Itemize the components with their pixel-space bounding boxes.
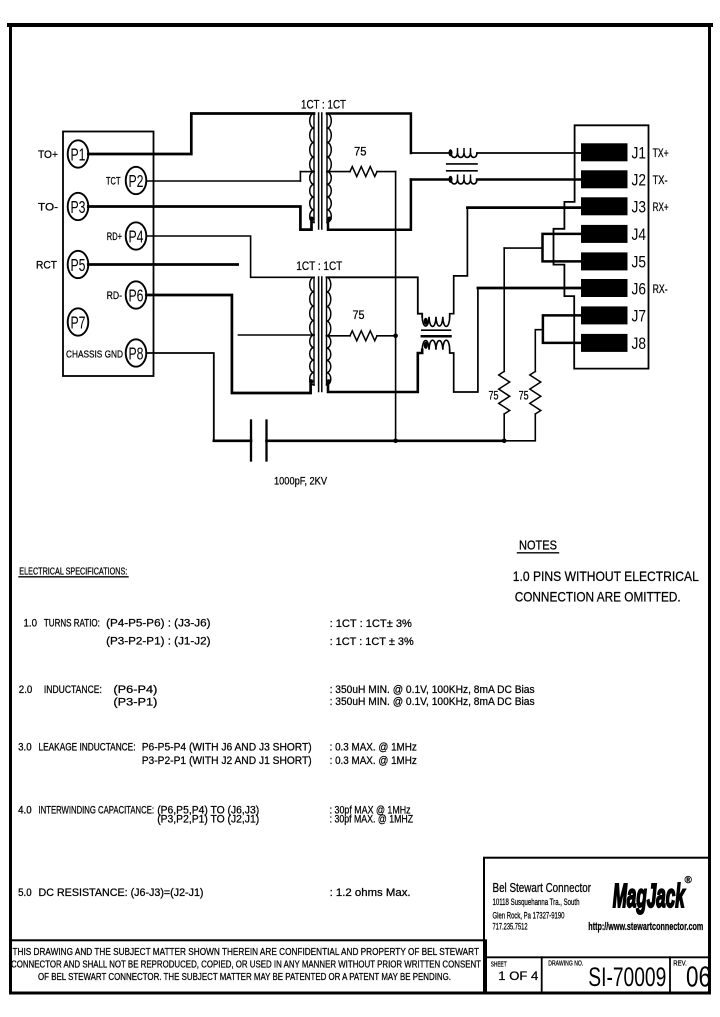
svg-text:: 30pf MAX. @ 1MHZ: : 30pf MAX. @ 1MHZ [330, 814, 414, 826]
svg-text:TO+: TO+ [38, 149, 58, 161]
svg-text:CONNECTION ARE OMITTED.: CONNECTION ARE OMITTED. [515, 589, 681, 605]
svg-text:J5: J5 [632, 253, 647, 272]
svg-text:CONNECTOR AND SHALL NOT BE REP: CONNECTOR AND SHALL NOT BE REPRODUCED, C… [11, 959, 481, 970]
svg-text:06: 06 [686, 962, 711, 994]
svg-text:RCT: RCT [36, 260, 57, 272]
svg-text:: 1.2 ohms Max.: : 1.2 ohms Max. [330, 887, 411, 899]
svg-text:SI-70009: SI-70009 [588, 962, 666, 992]
svg-text:TO-: TO- [38, 202, 58, 214]
svg-text:10118 Susquehanna Tra., South: 10118 Susquehanna Tra., South [493, 897, 580, 907]
svg-text:75: 75 [489, 389, 499, 403]
svg-text:1CT : 1CT: 1CT : 1CT [301, 98, 347, 112]
svg-text:1CT : 1CT: 1CT : 1CT [296, 259, 343, 273]
svg-text:OF BEL STEWART CONNECTOR. THE: OF BEL STEWART CONNECTOR. THE SUBJECT MA… [38, 972, 451, 983]
svg-text:RX+: RX+ [653, 200, 669, 214]
svg-text:(P6-P4): (P6-P4) [113, 684, 157, 696]
svg-text:RD-: RD- [107, 290, 123, 302]
svg-text:4.0: 4.0 [18, 804, 32, 816]
svg-text:1 OF 4: 1 OF 4 [498, 969, 538, 983]
svg-text:5.0: 5.0 [18, 887, 32, 899]
svg-text:(P3-P1): (P3-P1) [113, 697, 157, 709]
svg-text:P8: P8 [129, 343, 144, 363]
svg-text:2.0: 2.0 [19, 684, 33, 696]
svg-text:J4: J4 [632, 225, 647, 244]
svg-text:Bel Stewart Connector: Bel Stewart Connector [493, 880, 592, 895]
svg-text:P5: P5 [71, 255, 86, 275]
svg-text:INTERWINDING CAPACITANCE:: INTERWINDING CAPACITANCE: [39, 804, 155, 816]
svg-text:: 1CT : 1CT ± 3%: : 1CT : 1CT ± 3% [330, 636, 415, 648]
svg-text:(P4-P5-P6) : (J3-J6): (P4-P5-P6) : (J3-J6) [106, 617, 210, 629]
svg-text:J2: J2 [632, 171, 647, 190]
svg-text:NOTES: NOTES [519, 539, 557, 553]
svg-text:RX-: RX- [653, 282, 668, 296]
svg-text:ELECTRICAL SPECIFICATIONS:: ELECTRICAL SPECIFICATIONS: [19, 566, 127, 577]
svg-text:TX-: TX- [653, 173, 668, 187]
svg-text:TURNS RATIO:: TURNS RATIO: [44, 617, 100, 629]
svg-text:LEAKAGE INDUCTANCE:: LEAKAGE INDUCTANCE: [39, 741, 136, 753]
svg-text:TCT: TCT [106, 176, 121, 188]
svg-text:SHEET: SHEET [491, 960, 507, 969]
svg-text:J3: J3 [632, 198, 647, 217]
svg-text:1.0: 1.0 [24, 617, 38, 629]
svg-text:75: 75 [519, 389, 529, 403]
svg-text:: 350uH MIN. @ 0.1V, 100KHz, 8: : 350uH MIN. @ 0.1V, 100KHz, 8mA DC Bias [330, 696, 535, 708]
svg-text:DRAWING NO.: DRAWING NO. [548, 959, 583, 968]
svg-text:P6: P6 [129, 285, 144, 305]
svg-text:P4: P4 [129, 226, 144, 246]
svg-text:THIS DRAWING AND THE SUBJECT M: THIS DRAWING AND THE SUBJECT MATTER SHOW… [13, 947, 480, 958]
svg-text:3.0: 3.0 [18, 741, 32, 753]
svg-text:P6-P5-P4 (WITH J6 AND J3 SHORT: P6-P5-P4 (WITH J6 AND J3 SHORT) [142, 741, 312, 753]
svg-text:(P3,P2,P1) TO (J2,J1): (P3,P2,P1) TO (J2,J1) [157, 814, 259, 826]
svg-text:: 1CT : 1CT± 3%: : 1CT : 1CT± 3% [330, 618, 413, 630]
svg-text:P3: P3 [71, 197, 86, 217]
svg-text:REV.: REV. [673, 959, 687, 968]
svg-text:P1: P1 [71, 144, 86, 164]
svg-text:P7: P7 [71, 312, 86, 332]
svg-text:RD+: RD+ [107, 231, 122, 243]
svg-text:: 350uH MIN. @ 0.1V, 100KHz, 8: : 350uH MIN. @ 0.1V, 100KHz, 8mA DC Bias [330, 684, 535, 696]
svg-text:TX+: TX+ [653, 146, 669, 160]
svg-text:: 0.3 MAX. @ 1MHz: : 0.3 MAX. @ 1MHz [330, 741, 417, 753]
svg-text:J1: J1 [632, 144, 647, 163]
svg-text:INDUCTANCE:: INDUCTANCE: [44, 684, 102, 696]
svg-text:1.0 PINS WITHOUT ELECTRICAL: 1.0 PINS WITHOUT ELECTRICAL [513, 568, 699, 584]
svg-text:http://www.stewartconnector.co: http://www.stewartconnector.com [588, 921, 703, 933]
svg-text:®: ® [685, 875, 693, 886]
svg-text:: 0.3 MAX. @ 1MHz: : 0.3 MAX. @ 1MHz [330, 755, 417, 767]
svg-text:75: 75 [354, 145, 367, 159]
svg-text:MagJack: MagJack [613, 877, 686, 914]
svg-text:(P3-P2-P1) : (J1-J2): (P3-P2-P1) : (J1-J2) [106, 635, 210, 647]
svg-text:J7: J7 [632, 307, 647, 326]
svg-text:P2: P2 [129, 171, 144, 191]
svg-text:J8: J8 [632, 334, 647, 353]
svg-text:J6: J6 [632, 279, 647, 298]
svg-text:717.235.7512: 717.235.7512 [493, 922, 528, 932]
svg-text:1000pF, 2KV: 1000pF, 2KV [274, 476, 328, 488]
svg-text:75: 75 [353, 308, 365, 322]
svg-text:DC RESISTANCE: (J6-J3)=(J2-J1): DC RESISTANCE: (J6-J3)=(J2-J1) [39, 887, 204, 899]
svg-text:Glen Rock, Pa 17327-9190: Glen Rock, Pa 17327-9190 [493, 910, 565, 920]
svg-text:P3-P2-P1 (WITH J2 AND J1 SHORT: P3-P2-P1 (WITH J2 AND J1 SHORT) [142, 755, 312, 767]
svg-text:CHASSIS GND: CHASSIS GND [66, 348, 123, 360]
